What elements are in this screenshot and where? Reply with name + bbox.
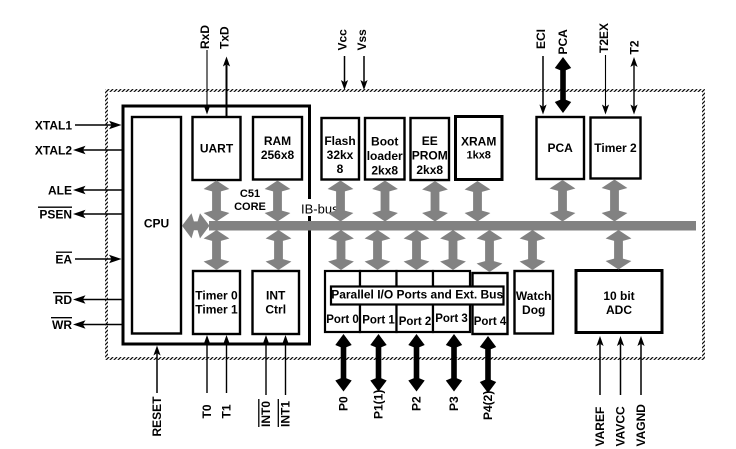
svg-text:256x8: 256x8: [261, 148, 295, 162]
pin PCA (port): [555, 29, 571, 113]
pin INT1 (active low): [278, 335, 292, 427]
bus arrow ADC: [606, 230, 632, 270]
svg-text:RD: RD: [55, 293, 73, 307]
svg-text:Timer 0: Timer 0: [195, 289, 238, 303]
pin P3: [446, 334, 462, 411]
svg-text:INT0: INT0: [259, 401, 273, 427]
svg-text:EE: EE: [422, 134, 438, 148]
bus arrow Boot loader: [372, 181, 398, 222]
svg-text:P2: P2: [410, 396, 424, 411]
IB-bus bar: [209, 221, 696, 231]
pin XTAL1: [35, 119, 122, 133]
label Port 0: [326, 314, 359, 326]
pin P4: [480, 336, 496, 420]
bus arrow Watch Dog: [520, 230, 546, 270]
pin RD (active low): [53, 293, 122, 307]
svg-text:PCA: PCA: [548, 141, 574, 155]
pin TxD: [218, 26, 232, 116]
pin PSEN (active low): [38, 207, 122, 221]
svg-text:UART: UART: [200, 142, 234, 156]
label box Parallel I/O Ports and Ext. Bus: [331, 287, 504, 305]
svg-text:2kx8: 2kx8: [416, 163, 443, 177]
svg-text:VAGND: VAGND: [634, 404, 648, 447]
block Boot loader 2kx8: [365, 118, 405, 180]
bus arrow CPU: [182, 213, 210, 238]
block Port 4: [473, 273, 508, 334]
bus arrow XRAM: [465, 181, 491, 222]
bus arrow Timer 2: [602, 180, 628, 222]
pin T1: [220, 335, 234, 419]
block EEPROM 2kx8: [411, 118, 450, 180]
block CPU: [132, 117, 181, 334]
block Timer 2: [591, 118, 641, 179]
svg-text:T2EX: T2EX: [597, 23, 611, 53]
svg-text:32kx: 32kx: [327, 148, 354, 162]
svg-text:VAREF: VAREF: [593, 407, 607, 447]
block Port 3: [433, 271, 470, 332]
svg-text:EA: EA: [55, 253, 72, 267]
svg-text:Boot: Boot: [371, 135, 398, 149]
bus arrow Timer 0/1: [204, 230, 230, 270]
svg-text:ADC: ADC: [606, 303, 632, 317]
block RAM 256x8: [253, 117, 302, 180]
svg-text:loader: loader: [367, 149, 403, 163]
svg-text:XTAL2: XTAL2: [35, 144, 72, 158]
svg-text:Timer 2: Timer 2: [594, 141, 637, 155]
label Port 4: [474, 316, 507, 328]
pin WR (active low): [51, 318, 122, 332]
svg-text:8: 8: [337, 162, 344, 176]
block PCA: [537, 117, 585, 179]
svg-text:RESET: RESET: [150, 396, 164, 437]
svg-text:Port 1: Port 1: [362, 315, 395, 327]
pin T0: [200, 335, 214, 419]
pin ALE: [48, 184, 122, 198]
bus arrow EEPROM: [422, 181, 448, 222]
block UART: [193, 117, 241, 180]
svg-text:Port 4: Port 4: [474, 316, 507, 328]
bus arrow Port 1: [365, 230, 391, 270]
svg-text:P1(1): P1(1): [372, 390, 386, 419]
pin VAREF: [593, 336, 607, 447]
pin XTAL2: [35, 144, 122, 158]
pin Vcc: [336, 29, 350, 90]
svg-text:Parallel I/O Ports and Ext. Bu: Parallel I/O Ports and Ext. Bus: [331, 288, 503, 302]
svg-text:T0: T0: [200, 404, 214, 418]
label Port 1: [362, 315, 395, 327]
bus arrow RAM: [265, 181, 291, 222]
svg-text:2kx8: 2kx8: [371, 164, 398, 178]
block Port 1: [360, 271, 397, 332]
svg-text:Ctrl: Ctrl: [265, 303, 286, 317]
svg-text:Flash: Flash: [324, 134, 355, 148]
pin ECI: [534, 29, 548, 115]
svg-text:Watch: Watch: [516, 289, 552, 303]
pin P1: [370, 334, 386, 419]
svg-text:P4(2): P4(2): [481, 391, 495, 420]
svg-text:T2: T2: [628, 40, 642, 54]
pin Vss: [355, 29, 369, 90]
svg-text:Port 0: Port 0: [326, 314, 359, 326]
label Port 2: [399, 316, 432, 328]
pin P0: [335, 334, 351, 411]
svg-text:P3: P3: [447, 396, 461, 411]
pin T2EX: [597, 23, 611, 115]
block Timer 0 / Timer 1: [193, 271, 240, 334]
pin EA (active low): [55, 252, 121, 266]
svg-text:Port 2: Port 2: [399, 316, 432, 328]
pin INT0 (active low): [259, 335, 273, 427]
bus arrow PCA: [550, 180, 576, 222]
svg-text:Vss: Vss: [355, 29, 369, 51]
svg-text:P0: P0: [337, 396, 351, 411]
block Port 2: [397, 271, 434, 332]
bus arrow INT Ctrl: [266, 230, 292, 270]
block 10 bit ADC: [576, 271, 662, 333]
C51 core boundary: [123, 106, 310, 344]
block XRAM 1kx8: [456, 117, 503, 180]
svg-text:INT: INT: [266, 289, 286, 303]
label C51 CORE: [234, 188, 266, 213]
svg-text:1kx8: 1kx8: [466, 150, 490, 162]
svg-text:XTAL1: XTAL1: [35, 119, 72, 133]
label IB-bus: [297, 199, 339, 217]
svg-text:Dog: Dog: [522, 303, 545, 317]
pin VAVCC: [614, 336, 628, 447]
block Watch Dog: [515, 271, 554, 334]
svg-text:RAM: RAM: [264, 134, 291, 148]
bus arrow Port 0: [328, 230, 354, 270]
bus arrow Port 4: [477, 230, 503, 272]
svg-text:CORE: CORE: [234, 201, 266, 213]
svg-text:TxD: TxD: [218, 26, 232, 49]
bus arrow Port 3: [440, 230, 466, 270]
label Port 3: [435, 313, 468, 325]
svg-text:INT1: INT1: [279, 401, 293, 427]
svg-text:Timer 1: Timer 1: [195, 303, 238, 317]
outer I/O boundary (hatched): [107, 91, 704, 359]
block Port 0: [325, 271, 360, 332]
svg-text:CPU: CPU: [144, 217, 169, 231]
pin T2: [628, 40, 642, 114]
block INT Ctrl: [253, 271, 300, 334]
svg-text:Port 3: Port 3: [435, 313, 468, 325]
svg-text:PCA: PCA: [556, 29, 570, 55]
pin RESET: [150, 346, 164, 437]
svg-text:VAVCC: VAVCC: [614, 406, 628, 447]
svg-text:ALE: ALE: [48, 184, 72, 198]
bus arrow Port 2: [404, 230, 430, 270]
svg-text:C51: C51: [240, 188, 260, 200]
pin P2: [408, 334, 424, 411]
svg-text:PROM: PROM: [412, 149, 448, 163]
svg-text:10 bit: 10 bit: [603, 289, 634, 303]
svg-text:T1: T1: [220, 404, 234, 418]
svg-text:Vcc: Vcc: [336, 29, 350, 51]
bus arrow UART: [204, 181, 230, 222]
svg-text:WR: WR: [52, 318, 72, 332]
block Flash 32kx8: [322, 118, 360, 180]
svg-text:ECI: ECI: [534, 29, 548, 49]
svg-text:RxD: RxD: [198, 25, 212, 49]
bus arrow Flash: [328, 181, 354, 222]
pin RxD: [198, 25, 212, 115]
svg-text:XRAM: XRAM: [461, 135, 496, 149]
pin VAGND: [634, 336, 648, 447]
svg-text:PSEN: PSEN: [39, 208, 72, 222]
